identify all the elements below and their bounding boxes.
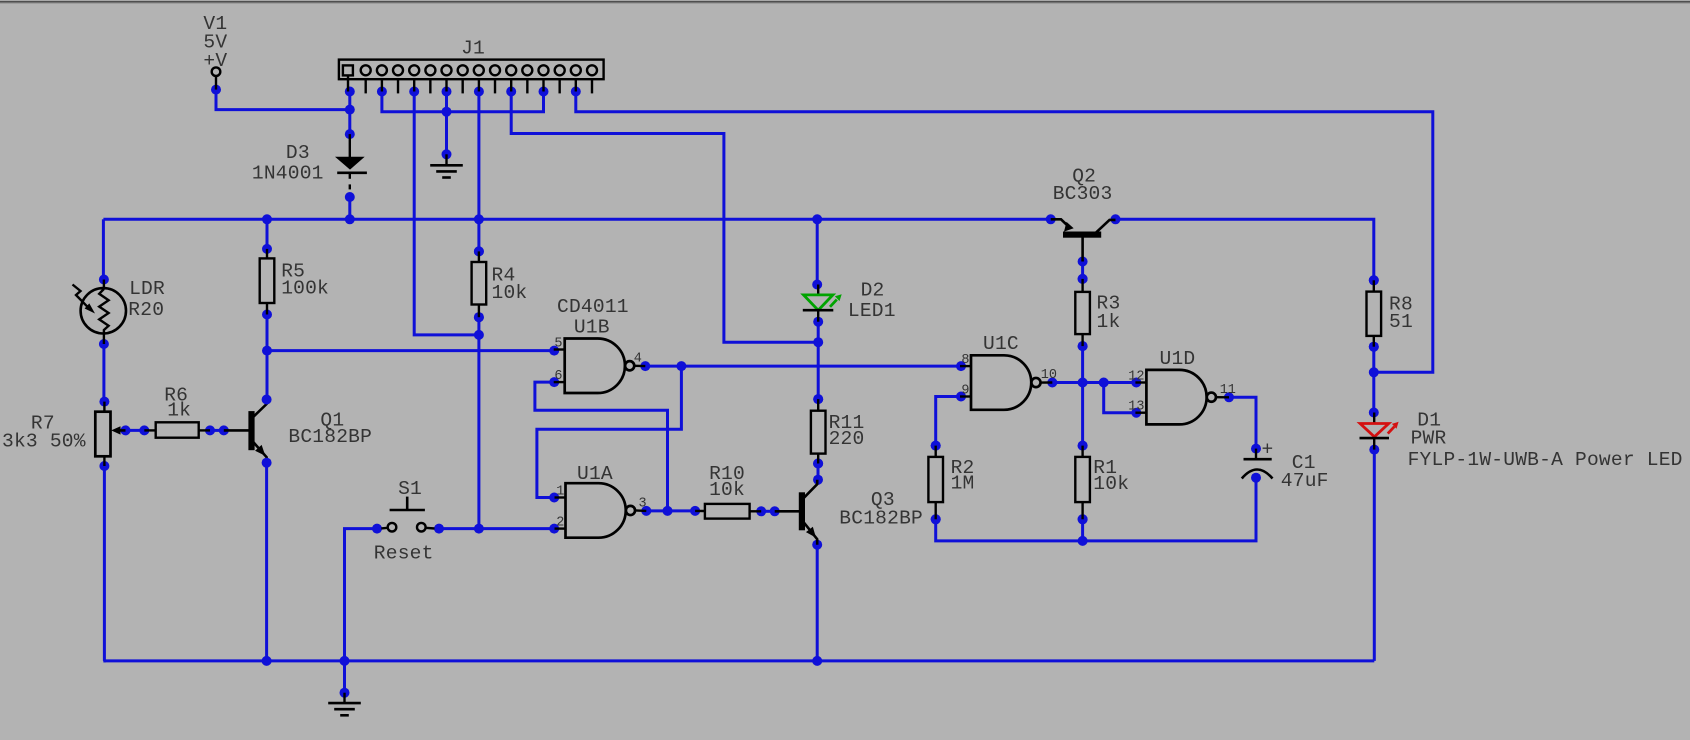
svg-text:47uF: 47uF <box>1281 470 1329 492</box>
label Q3 BC182BP <box>839 489 923 529</box>
wire R5/Q1 node to U1B pin5 <box>267 349 554 352</box>
resistor R10 10k horizontal <box>695 504 761 519</box>
junction +V rail dots <box>262 214 1121 224</box>
label R8 51 <box>1389 294 1413 334</box>
wire S1 to U1A pin2 <box>439 527 554 530</box>
wire +V rail left segment <box>103 218 1050 221</box>
wire Q2 base to R3 <box>1081 262 1084 279</box>
wire D3 cathode to +V rail <box>348 197 351 219</box>
gate U1C body <box>960 355 1052 410</box>
svg-text:U1D: U1D <box>1160 348 1196 370</box>
svg-text:3: 3 <box>639 496 647 511</box>
svg-text:10k: 10k <box>492 282 528 304</box>
wire R7 wiper to R6 <box>126 429 145 432</box>
potentiometer R7 3k3 <box>95 397 125 471</box>
label Q2 BC303 <box>1053 165 1113 205</box>
label R3 1k <box>1097 292 1121 332</box>
svg-text:1k: 1k <box>167 400 191 422</box>
wire U1D output to C1 top <box>1229 397 1256 448</box>
gate U1B pin numbers <box>554 336 642 384</box>
label R6 1k <box>164 385 191 422</box>
svg-text:U1C: U1C <box>983 333 1019 355</box>
wire R3 bottom to R1 top <box>1081 346 1084 446</box>
led D2 LED1 green <box>803 285 842 322</box>
junction bottom rail dots <box>262 656 823 666</box>
svg-text:4: 4 <box>634 352 642 367</box>
ground symbol under J1 pin7 <box>430 154 463 177</box>
label Q1 BC182BP <box>288 409 372 448</box>
svg-text:LED1: LED1 <box>848 300 896 322</box>
wire R2 bottom / R1 bottom / C1 bottom net <box>936 478 1256 541</box>
wire R11 bottom to Q3 collector <box>817 464 820 480</box>
svg-text:220: 220 <box>829 428 865 450</box>
svg-text:10: 10 <box>1041 368 1057 383</box>
wire U1C pin9 to R2 <box>936 397 961 446</box>
label D2 LED1 <box>848 279 896 322</box>
label CD4011 U1B <box>557 296 629 338</box>
svg-text:10k: 10k <box>1093 473 1129 495</box>
ground symbol bottom <box>328 693 361 716</box>
svg-text:BC182BP: BC182BP <box>288 426 372 448</box>
label R10 10k <box>709 463 745 501</box>
svg-text:8: 8 <box>961 353 969 368</box>
svg-text:5: 5 <box>554 336 562 351</box>
label R1 10k <box>1093 457 1129 495</box>
label V1 5V +V <box>203 13 227 72</box>
photoresistor LDR R20 <box>73 275 127 350</box>
wire J1 pin1 to D3 anode <box>348 92 351 135</box>
svg-text:D3: D3 <box>286 142 310 164</box>
label D3 1N4001 <box>252 142 324 185</box>
led D1 PWR red <box>1360 413 1399 450</box>
wire J1 pin9 / R4 column <box>477 92 480 252</box>
resistor R2 1M <box>928 441 943 525</box>
svg-text:13: 13 <box>1128 400 1144 415</box>
wire R6 to Q1 base <box>210 429 224 432</box>
label S1 Reset <box>374 478 434 565</box>
svg-text:D2: D2 <box>861 279 885 301</box>
svg-text:1k: 1k <box>1097 311 1121 333</box>
wire U1C output to U1D pin12 <box>1052 381 1136 384</box>
wire R4 bottom to S1 net <box>477 317 480 528</box>
transistor Q3 base stub <box>775 510 800 513</box>
wire U1B pin6 feedback from U1A output <box>535 382 668 511</box>
wire LDR to potentiometer <box>102 344 105 402</box>
svg-text:BC303: BC303 <box>1053 183 1113 205</box>
top border line <box>0 0 1690 1</box>
wire R10 to Q3 base <box>761 510 775 513</box>
gate U1A body <box>555 483 647 538</box>
wire bottom ground rail <box>103 659 1374 662</box>
svg-text:J1: J1 <box>461 38 485 60</box>
wire potentiometer to bottom rail <box>103 466 104 661</box>
svg-text:LDR: LDR <box>129 278 165 300</box>
wire J1 pin11 to D2 cathode node <box>511 92 818 343</box>
wire Q3 emitter to bottom rail <box>816 545 819 661</box>
wire +V rail right segment <box>1116 219 1374 280</box>
wire U1A output to R10 <box>646 509 695 512</box>
wire U1B output to U1C pin8 <box>645 365 961 368</box>
gate U1B body <box>554 339 646 394</box>
label R2 1M <box>951 457 975 494</box>
wire Q1 emitter to bottom rail <box>265 463 268 661</box>
svg-text:PWR: PWR <box>1411 428 1447 450</box>
transistor Q1 <box>249 400 267 463</box>
wire V1 to J1 pin1 <box>216 90 350 110</box>
gate U1A pin numbers <box>556 484 646 530</box>
svg-text:11: 11 <box>1220 383 1236 398</box>
label R4 10k <box>492 265 528 305</box>
label R11 220 <box>829 412 865 450</box>
wire D2 cathode to R11 <box>817 322 820 399</box>
transistor Q2 BC303 pnp <box>1051 219 1116 261</box>
svg-text:Reset: Reset <box>374 543 434 565</box>
svg-text:2: 2 <box>556 515 564 530</box>
svg-text:100k: 100k <box>281 278 329 300</box>
resistor R5 100k <box>260 244 275 320</box>
label R5 100k <box>281 260 329 299</box>
label C1 47uF <box>1281 452 1329 492</box>
wire J1 pin5 to R4 bottom <box>414 92 479 335</box>
svg-text:S1: S1 <box>398 478 422 500</box>
svg-text:CD4011: CD4011 <box>557 296 629 318</box>
svg-text:BC182BP: BC182BP <box>839 507 923 529</box>
connector J1 <box>339 60 604 94</box>
capacitor C1 47uF <box>1242 439 1274 479</box>
svg-text:9: 9 <box>961 383 969 398</box>
svg-text:12: 12 <box>1128 369 1144 384</box>
svg-text:1N4001: 1N4001 <box>252 163 324 185</box>
wire R5 bottom to Q1 collector <box>266 315 269 400</box>
svg-text:1M: 1M <box>951 472 975 494</box>
resistor R8 51 <box>1367 275 1382 351</box>
wire R5 column top <box>266 219 269 249</box>
pushbutton S1 <box>381 497 434 532</box>
svg-text:3k3 50%: 3k3 50% <box>2 431 86 453</box>
transistor Q3 <box>799 480 817 545</box>
svg-text:FYLP-1W-UWB-A Power LED: FYLP-1W-UWB-A Power LED <box>1408 449 1683 471</box>
wire R1 bottom stub <box>1081 519 1084 541</box>
gate U1D pin numbers <box>1128 369 1236 414</box>
resistor R11 220 <box>811 394 826 468</box>
label R7 3k3 50% <box>2 412 86 452</box>
svg-text:U1A: U1A <box>577 463 613 485</box>
gate U1C pin numbers <box>961 353 1057 398</box>
resistor R6 1k horizontal <box>144 422 210 437</box>
wire J1 pin15 to D1 anode node <box>576 92 1433 373</box>
svg-text:+: + <box>1262 439 1274 461</box>
wire R8 bottom to D1 anode <box>1372 347 1375 413</box>
wire branch to U1D pin13 <box>1104 383 1137 413</box>
voltage source V1 terminal <box>212 67 221 89</box>
svg-text:1: 1 <box>556 484 564 499</box>
wire S1 to ground rail <box>345 529 378 661</box>
wire U1B output feedback to U1A pin1 <box>537 366 682 497</box>
resistor R1 10k <box>1075 441 1090 525</box>
svg-text:+V: +V <box>203 50 227 72</box>
wire left branch LDR column <box>102 219 105 279</box>
wire D2 column from +V rail <box>816 219 819 284</box>
svg-text:51: 51 <box>1389 311 1413 333</box>
svg-text:R20: R20 <box>128 299 164 321</box>
svg-text:U1B: U1B <box>574 316 610 338</box>
label D1 PWR FYLP <box>1408 409 1683 471</box>
diode D3 1N4001 <box>335 134 367 189</box>
resistor R4 10k <box>472 246 487 322</box>
wire J1 pin7 to ground symbol <box>445 92 448 155</box>
svg-text:6: 6 <box>554 369 562 384</box>
resistor R3 1k <box>1075 274 1090 351</box>
gate U1D body <box>1135 370 1229 425</box>
svg-text:10k: 10k <box>709 479 745 501</box>
wire ground stub below rail <box>343 661 346 693</box>
wire D1 cathode to bottom rail <box>1373 450 1376 661</box>
wire J1 pin3 to pin13 GND bus <box>382 92 544 112</box>
label LDR R20 <box>128 278 165 321</box>
